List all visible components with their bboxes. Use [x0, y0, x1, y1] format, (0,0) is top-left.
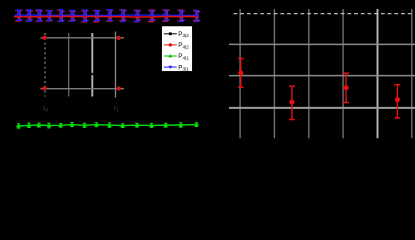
node corner-dot: [117, 36, 121, 40]
node top-errbar-7: [81, 10, 88, 22]
node legend-entry-3|1: [164, 64, 189, 71]
svg-text:t1: t1: [114, 103, 119, 114]
node top-marker-14: [179, 14, 184, 18]
node right-errbar-1: [238, 59, 244, 88]
node legend-box: [162, 26, 193, 72]
node green-point-7: [82, 123, 86, 127]
node top-marker-10: [120, 14, 125, 19]
node top-errbar-12: [148, 10, 155, 22]
node green-point-14: [179, 123, 183, 127]
node top-errbar-9: [106, 10, 113, 21]
node green-point-13: [164, 123, 168, 127]
node green-point-10: [121, 123, 125, 127]
node top-errbar-10: [119, 10, 126, 22]
node top-marker-3: [37, 14, 42, 19]
node green-point-8: [94, 123, 98, 127]
node green-point-2: [27, 123, 31, 127]
node legend-entry-4|2: [164, 42, 189, 49]
wire: [14, 15, 197, 18]
node legend-entry-3|2: [164, 31, 189, 38]
node top-errbar-6: [69, 10, 76, 21]
node green-point-11: [135, 123, 139, 127]
node mini-diagram: [41, 32, 125, 98]
node top-errbar-2: [26, 10, 33, 21]
node top-marker-9: [107, 14, 112, 18]
node right-errbar-2: [289, 86, 295, 119]
node green-point-6: [70, 122, 74, 126]
node legend-entry-4|1: [164, 53, 189, 60]
node top-errbar-4: [46, 11, 53, 21]
node corner-dot: [43, 36, 47, 40]
node top-marker-8: [94, 14, 99, 18]
svg-text:t0: t0: [43, 103, 48, 114]
node right-errbar-3: [343, 73, 349, 102]
node top-errbar-3: [36, 10, 43, 22]
node top-marker-2: [27, 14, 32, 19]
node green-point-1: [16, 124, 20, 128]
node top-errbar-1: [15, 10, 22, 21]
node corner-dot: [42, 86, 46, 90]
node top-errbar-5: [57, 10, 64, 22]
node corner-dot: [117, 86, 121, 90]
node right-grid: [229, 9, 415, 138]
node top-errbar-13: [162, 10, 169, 21]
node green-point-3: [37, 123, 41, 127]
node top-errbar-8: [93, 11, 100, 22]
wire: [16, 125, 198, 127]
node right-errbar-4: [395, 85, 401, 118]
node top-marker-12: [149, 14, 154, 19]
wire: [14, 14, 196, 17]
node top-marker-11: [135, 14, 140, 19]
node top-errbar-15: [193, 11, 200, 22]
node green-point-4: [47, 123, 51, 128]
node green-point-12: [149, 123, 153, 127]
node top-errbar-11: [134, 10, 141, 21]
node top-marker-7: [82, 14, 87, 18]
node top-marker-5: [58, 14, 63, 18]
node top-marker-1: [16, 14, 21, 19]
node green-point-15: [194, 122, 198, 126]
node top-marker-4: [47, 14, 52, 18]
node top-errbar-14: [177, 10, 184, 21]
node green-point-9: [107, 123, 111, 127]
node top-marker-15: [194, 14, 199, 18]
node top-marker-13: [163, 14, 168, 19]
node top-marker-6: [70, 14, 75, 18]
node green-point-5: [59, 123, 63, 127]
